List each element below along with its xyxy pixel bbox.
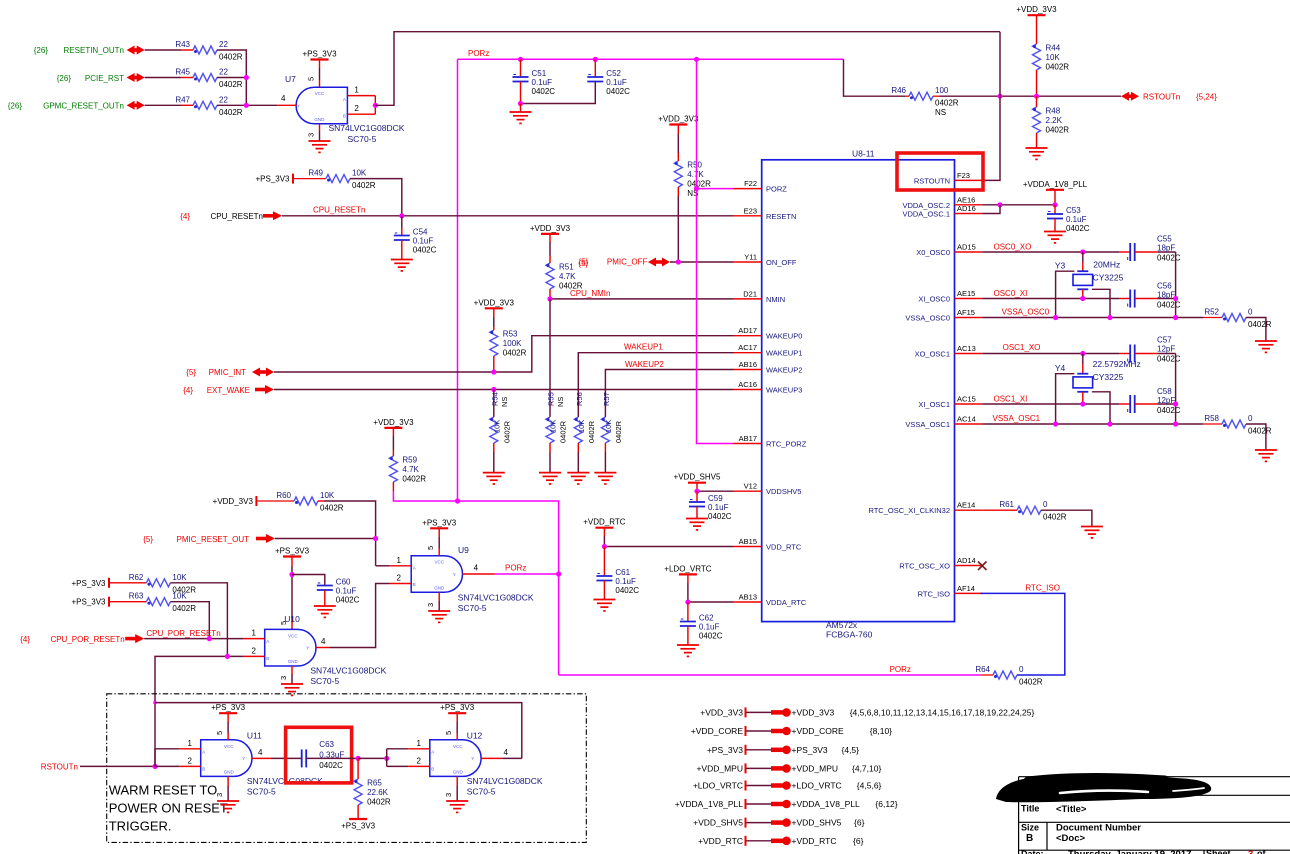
- wire U12 pin2 wire: [387, 765, 409, 767]
- wire EXT_WAKE to WAKEUP3: [274, 389, 734, 391]
- svg-text:EXT_WAKE: EXT_WAKE: [207, 386, 250, 395]
- svg-text:1: 1: [188, 739, 193, 748]
- wire RESETIN_OUTn to R43: [145, 49, 181, 51]
- resistor R46: [891, 86, 958, 117]
- svg-text:Sheet: Sheet: [1206, 849, 1231, 854]
- svg-text:Y: Y: [453, 572, 456, 577]
- svg-text:U12: U12: [467, 731, 483, 741]
- junction feedback: [153, 701, 157, 705]
- svg-text:2.2K: 2.2K: [1046, 116, 1063, 125]
- svg-text:VCC: VCC: [224, 744, 234, 749]
- svg-text:VCC: VCC: [288, 633, 298, 638]
- wire U12 input tie: [386, 749, 388, 767]
- wire PORz to F22: [697, 188, 734, 190]
- svg-text:0402R: 0402R: [219, 80, 243, 89]
- svg-text:GND: GND: [453, 769, 464, 774]
- ground at R54: [483, 473, 505, 484]
- junction PORz jog: [455, 498, 460, 503]
- svg-text:0: 0: [1043, 500, 1048, 509]
- svg-text:VCC: VCC: [453, 744, 463, 749]
- svg-text:Thursday, January 19, 2017: Thursday, January 19, 2017: [1068, 849, 1191, 854]
- svg-text:{26}: {26}: [34, 46, 49, 55]
- svg-text:{5}: {5}: [186, 368, 196, 377]
- wire R47 to U7 output: [217, 104, 278, 106]
- junction PORz F22: [694, 186, 699, 191]
- wire R53 bottom to PMIC_INT row: [493, 356, 495, 372]
- capacitor C56: [1128, 290, 1135, 308]
- svg-text:CPU_POR_RESETn: CPU_POR_RESETn: [50, 635, 124, 644]
- pin 1 U11: [179, 739, 201, 749]
- wire R48 bottom stub: [1036, 133, 1038, 148]
- svg-text:+PS_3V3: +PS_3V3: [211, 703, 246, 712]
- capacitor C58 on XI1 row: [1119, 387, 1181, 415]
- svg-text:18pF: 18pF: [1157, 244, 1175, 253]
- svg-text:C60: C60: [336, 578, 351, 587]
- svg-text:5: 5: [215, 731, 224, 735]
- svg-text:B: B: [1026, 833, 1033, 844]
- resistor R62: [109, 573, 196, 595]
- svg-text:{4,5,6,8,10,11,12,13,14,15,16,: {4,5,6,8,10,11,12,13,14,15,16,17,18,19,2…: [850, 707, 1035, 717]
- svg-text:+PS_3V3: +PS_3V3: [341, 822, 376, 831]
- wire GPMC_RESET_OUTn to R47: [145, 104, 181, 106]
- gate U9 SN74LVC1G08DCK: [411, 545, 534, 613]
- wire PORz to RTC_PORZ: [697, 59, 734, 443]
- wire R44 top stub: [1036, 15, 1038, 44]
- svg-text:C61: C61: [615, 568, 630, 577]
- svg-text:PMIC_INT: PMIC_INT: [209, 368, 246, 377]
- svg-text:0.1uF: 0.1uF: [413, 237, 434, 246]
- wire R59 top: [392, 428, 394, 456]
- svg-text:Y: Y: [242, 756, 245, 761]
- wire VSSA_OSC1 row: [982, 423, 1203, 425]
- node CPU_RESETn off-page: [180, 212, 263, 221]
- svg-text:NMIN: NMIN: [766, 295, 785, 304]
- port arrow PMIC_INT: [252, 368, 274, 377]
- ground at U11: [217, 801, 239, 812]
- wire C57 C58 right vertical: [1175, 354, 1177, 425]
- port arrow GPMC_RESET_OUTn: [127, 101, 145, 110]
- pin AD15 X0_OSC0: [916, 243, 982, 258]
- power +PS_3V3 at R62: [108, 578, 110, 588]
- svg-text:PCIE_RST: PCIE_RST: [85, 74, 124, 83]
- wire C62 column: [687, 602, 689, 622]
- pin 3 U7 GND: [307, 124, 320, 141]
- svg-text:10K: 10K: [172, 592, 187, 601]
- pin AB16 WAKEUP2: [734, 360, 803, 375]
- svg-text:SN74LVC1G08DCK: SN74LVC1G08DCK: [310, 666, 386, 676]
- capacitor C62: [680, 614, 723, 641]
- wire C53 top stub: [1054, 205, 1056, 214]
- capacitor C52: [587, 69, 630, 96]
- pin 4 U10 output: [316, 637, 330, 648]
- svg-text:+VDD_3V3: +VDD_3V3: [474, 298, 515, 307]
- svg-text:100: 100: [935, 86, 949, 95]
- junction NMIN R51 R55: [547, 296, 552, 301]
- pin V12 VDDSHV5: [734, 482, 802, 497]
- wire C61 ground stub: [603, 581, 605, 600]
- svg-text:0402R: 0402R: [352, 181, 376, 190]
- wire U10 B net to U11: [155, 656, 243, 702]
- svg-text:PORz: PORz: [505, 564, 526, 573]
- svg-text:AC16: AC16: [738, 380, 757, 389]
- wire C62 ground stub: [687, 626, 689, 645]
- pin AC15 XI_OSC1: [918, 395, 982, 410]
- svg-text:+PS_3V3: +PS_3V3: [71, 579, 106, 588]
- svg-text:WAKEUP1: WAKEUP1: [766, 349, 802, 358]
- svg-text:VDDSHV5: VDDSHV5: [766, 487, 801, 496]
- svg-text:1: 1: [397, 556, 402, 565]
- resistor R50: [674, 161, 711, 199]
- junction U11 inputs: [152, 764, 157, 769]
- wire R45 to junction: [217, 77, 246, 79]
- svg-text:R46: R46: [891, 86, 906, 95]
- svg-text:22: 22: [219, 40, 228, 49]
- crystal Y4 22.5792MHz CY3225: [1055, 359, 1141, 392]
- svg-text:Y: Y: [306, 646, 309, 651]
- pin 2 U9: [389, 574, 411, 584]
- pin AC14 VSSA_OSC1: [905, 415, 982, 430]
- svg-text:R51: R51: [559, 263, 574, 272]
- svg-text:5: 5: [307, 77, 316, 81]
- svg-text:U10: U10: [284, 614, 300, 624]
- svg-text:R45: R45: [175, 68, 190, 77]
- power flag +VDD_SHV5: [693, 818, 864, 828]
- svg-text:ON_OFF: ON_OFF: [766, 258, 797, 267]
- wire VSSA_OSC0 row: [982, 317, 1203, 319]
- marker scribble: [996, 774, 1211, 802]
- wire PORz top rail: [458, 58, 844, 60]
- svg-text:AB13: AB13: [739, 593, 757, 602]
- svg-text:AD16: AD16: [957, 204, 976, 213]
- wire junction to U12 inputs: [358, 757, 387, 759]
- ground at R58: [1255, 450, 1277, 461]
- title block texts: [1021, 804, 1266, 854]
- svg-text:0.1uF: 0.1uF: [615, 577, 636, 586]
- svg-text:+VDD_RTC: +VDD_RTC: [792, 836, 837, 846]
- svg-text:0402R: 0402R: [614, 420, 623, 443]
- wire U9 output to PORz vertical: [495, 573, 559, 575]
- svg-text:0402C: 0402C: [1157, 254, 1181, 263]
- svg-text:Title: Title: [1021, 804, 1039, 814]
- svg-text:R47: R47: [175, 95, 190, 104]
- capacitor C56 on XI row: [1119, 282, 1181, 310]
- power flag +VDD_MPU: [696, 763, 881, 773]
- svg-text:+VDD_3V3: +VDD_3V3: [373, 418, 414, 427]
- svg-text:B: B: [431, 766, 434, 771]
- svg-text:A: A: [266, 639, 269, 644]
- svg-text:R55: R55: [547, 392, 556, 406]
- node RSTOUTn label: [1143, 93, 1217, 102]
- svg-text:U7: U7: [285, 74, 296, 84]
- pin AE16 VDDA_OSC.2: [902, 195, 982, 210]
- wire C54 top stub: [401, 216, 403, 228]
- power +PS_3V3 at U7: [311, 58, 329, 60]
- node PMIC_RESET_OUT off-page: [143, 535, 249, 544]
- ground at R55: [539, 473, 561, 484]
- svg-text:0402C: 0402C: [413, 246, 437, 255]
- svg-text:10K: 10K: [352, 169, 367, 178]
- svg-text:2: 2: [354, 104, 359, 113]
- svg-text:{6,12}: {6,12}: [875, 799, 897, 809]
- svg-text:AD14: AD14: [957, 556, 976, 565]
- junction VSSA_OSC0 caps: [1173, 315, 1178, 320]
- wire WAKEUP2 row: [605, 370, 733, 418]
- wire into U9 pin 1: [376, 565, 389, 567]
- svg-text:Y4: Y4: [1055, 363, 1066, 373]
- pin AE14 RTC_OSC_XI_CLKIN32: [868, 501, 982, 516]
- wire X0_OSC0 row: [982, 251, 1119, 253]
- svg-text:R63: R63: [129, 592, 144, 601]
- svg-text:1: 1: [354, 86, 359, 95]
- svg-text:10K: 10K: [1046, 53, 1061, 62]
- svg-text:0.1uF: 0.1uF: [699, 623, 720, 632]
- svg-text:0: 0: [1019, 665, 1024, 674]
- svg-text:RSTOUTN: RSTOUTN: [914, 176, 950, 185]
- svg-text:AC13: AC13: [957, 344, 976, 353]
- power flag +PS_3V3: [707, 745, 859, 755]
- power +PS_3V3 at U9: [430, 527, 448, 529]
- svg-text:0402C: 0402C: [615, 586, 639, 595]
- power +PS_3V3 at U10: [283, 555, 301, 557]
- port arrow RESETIN_OUTn: [127, 46, 145, 55]
- svg-text:WARM RESET TO: WARM RESET TO: [109, 783, 218, 798]
- wire PORz left vertical: [457, 59, 459, 501]
- svg-text:0402C: 0402C: [1157, 301, 1181, 310]
- svg-text:+VDD_CORE: +VDD_CORE: [691, 726, 744, 736]
- resistor R64: [975, 665, 1042, 687]
- crystal Y3 20MHz CY3225: [1055, 260, 1124, 290]
- svg-text:GND: GND: [288, 659, 299, 664]
- wire Y4 case left: [1056, 374, 1075, 424]
- svg-text:AC15: AC15: [957, 395, 976, 404]
- power +VDD_3V3 at R59: [384, 427, 402, 429]
- junction Y3 top: [1080, 249, 1085, 254]
- pin 3 U11 GND: [215, 776, 228, 801]
- svg-text:10K: 10K: [320, 491, 335, 500]
- power +VDD_RTC: [595, 527, 613, 529]
- svg-text:B: B: [202, 766, 205, 771]
- ground at U12: [446, 801, 468, 812]
- port arrow PMIC_OFF: [648, 258, 670, 267]
- svg-text:+VDD_SHV5: +VDD_SHV5: [674, 473, 721, 482]
- svg-text:0402C: 0402C: [699, 632, 723, 641]
- svg-text:CY3225: CY3225: [1093, 272, 1124, 282]
- wire C52 top stub: [594, 59, 596, 77]
- svg-text:X0_OSC0: X0_OSC0: [916, 248, 950, 257]
- wire U7 input tie: [374, 96, 376, 115]
- svg-text:GPMC_RESET_OUTn: GPMC_RESET_OUTn: [43, 102, 124, 111]
- junction PMIC_RESET_OUT R60: [373, 536, 378, 541]
- port arrow PCIE_RST: [127, 73, 145, 82]
- svg-text:10K: 10K: [577, 420, 586, 433]
- svg-text:R65: R65: [367, 779, 382, 788]
- svg-text:0.1uF: 0.1uF: [532, 78, 553, 87]
- resistor R56: [574, 392, 596, 443]
- junction Y4 bottom: [1080, 401, 1085, 406]
- svg-text:+PS_3V3: +PS_3V3: [255, 175, 290, 184]
- ground at C62: [677, 645, 699, 656]
- power +VDD_3V3 at R50: [669, 123, 687, 125]
- svg-text:0402C: 0402C: [1157, 355, 1181, 364]
- svg-text:3: 3: [426, 603, 435, 607]
- svg-text:{4}: {4}: [20, 635, 30, 644]
- pin AF15 VSSA_OSC0: [905, 308, 982, 323]
- junction PORz at C52: [593, 57, 598, 62]
- resistor R57: [601, 392, 623, 443]
- wire F23 riser: [982, 32, 1000, 181]
- svg-text:VSSA_OSC0: VSSA_OSC0: [1002, 308, 1050, 317]
- port arrow CPU_RESETn: [263, 211, 282, 220]
- wire XI_OSC1 row: [982, 403, 1119, 405]
- op-amp U7 AND gate SN74LVC1G08DCK: [285, 74, 405, 144]
- svg-text:+VDD_MPU: +VDD_MPU: [792, 763, 839, 773]
- pin 3 U10 GND: [279, 666, 292, 684]
- svg-text:2: 2: [252, 646, 257, 655]
- dashed box warm reset: [107, 694, 587, 843]
- wire VDD_RTC: [604, 528, 733, 547]
- power flag +VDDA_1V8_PLL: [675, 799, 898, 809]
- wire R50 top: [677, 125, 679, 162]
- pin 2 U10: [243, 646, 265, 656]
- ground at C61: [593, 600, 615, 611]
- svg-text:RSTOUTn: RSTOUTn: [1143, 93, 1180, 102]
- svg-text:R60: R60: [276, 491, 291, 500]
- svg-text:R50: R50: [687, 161, 702, 170]
- svg-text:R49: R49: [308, 169, 323, 178]
- svg-text:{26}: {26}: [8, 102, 23, 111]
- svg-text:2: 2: [397, 574, 402, 583]
- svg-text:AB17: AB17: [739, 434, 757, 443]
- svg-text:+VDD_3V3: +VDD_3V3: [213, 497, 254, 506]
- wire C63 to R65 junction: [306, 757, 358, 759]
- svg-text:SC70-5: SC70-5: [467, 787, 496, 797]
- svg-text:C58: C58: [1157, 387, 1172, 396]
- pin 2 U7 input B: [347, 104, 375, 114]
- junction C53: [1052, 202, 1057, 207]
- svg-text:{5}: {5}: [578, 259, 588, 268]
- wire PMIC_INT to WAKEUP0: [274, 336, 734, 372]
- gate U10 SN74LVC1G08DCK: [265, 614, 387, 686]
- svg-text:100K: 100K: [503, 339, 522, 348]
- svg-text:+VDD_3V3: +VDD_3V3: [700, 707, 743, 717]
- svg-text:POWER ON RESET: POWER ON RESET: [109, 801, 228, 816]
- svg-text:OSC0_XO: OSC0_XO: [994, 243, 1032, 252]
- svg-text:AD15: AD15: [957, 243, 976, 252]
- wire R54 riser: [493, 390, 495, 418]
- wire R44 bottom to RSTOUTn row: [1036, 70, 1038, 96]
- svg-text:20MHz: 20MHz: [1093, 260, 1120, 270]
- svg-text:A: A: [343, 97, 346, 102]
- svg-text:+VDDA_1V8_PLL: +VDDA_1V8_PLL: [675, 799, 744, 809]
- svg-text:SC70-5: SC70-5: [458, 603, 487, 613]
- svg-text:Y: Y: [471, 756, 474, 761]
- junction: [244, 75, 249, 80]
- power +VDD_3V3 at R44: [1028, 14, 1046, 16]
- capacitor C51: [513, 69, 556, 96]
- pin AF14 RTC_ISO: [918, 584, 983, 599]
- wire RSTOUTn feedback net: [154, 703, 156, 767]
- wire XO1 to crystal: [1082, 354, 1084, 374]
- junction VDD_RTC C61: [602, 544, 607, 549]
- svg-text:CPU_RESETn: CPU_RESETn: [313, 206, 365, 215]
- gate U12: [430, 740, 481, 777]
- wire RTC_ISO blue loop: [981, 593, 1065, 675]
- resistor R51: [546, 263, 583, 291]
- pin 4 U11 output: [252, 748, 271, 759]
- wire R50 bottom to ON_OFF: [677, 187, 679, 262]
- svg-text:0.1uF: 0.1uF: [336, 587, 357, 596]
- svg-text:1: 1: [252, 629, 257, 638]
- svg-text:AF15: AF15: [957, 308, 975, 317]
- svg-text:+VDD_3V3: +VDD_3V3: [792, 707, 835, 717]
- capacitor C55: [1128, 243, 1135, 261]
- svg-text:10K: 10K: [549, 420, 558, 433]
- svg-text:3: 3: [279, 676, 288, 680]
- svg-text:12pF: 12pF: [1157, 396, 1175, 405]
- wire U12 out riser: [502, 757, 522, 759]
- power +VDD_3V3 at R53: [485, 307, 503, 309]
- svg-text:{4,7,10}: {4,7,10}: [852, 763, 881, 773]
- resistor R63: [109, 592, 196, 614]
- junction U12 inputs: [384, 756, 389, 761]
- wire AD16 riser: [982, 205, 1000, 214]
- svg-text:3: 3: [444, 793, 453, 797]
- svg-text:0402R: 0402R: [559, 420, 568, 443]
- pin AB15 VDD_RTC: [734, 537, 802, 552]
- wire to C60: [292, 575, 325, 586]
- svg-text:SN74LVC1G08DCK: SN74LVC1G08DCK: [467, 776, 543, 786]
- svg-text:AE14: AE14: [957, 501, 975, 510]
- svg-text:{6}: {6}: [853, 836, 864, 846]
- junction C56 vertical: [1173, 296, 1178, 301]
- gate U10: [265, 629, 316, 666]
- svg-text:+PS_3V3: +PS_3V3: [71, 598, 106, 607]
- wire PMIC_OFF to ON_OFF pin: [670, 261, 734, 263]
- svg-text:C55: C55: [1157, 235, 1172, 244]
- junction VSSA_OSC1 case right: [1107, 421, 1112, 426]
- ground at C54: [391, 260, 413, 271]
- svg-text:AC14: AC14: [957, 415, 976, 424]
- svg-text:{6}: {6}: [854, 818, 865, 828]
- svg-text:VDDA_OSC.1: VDDA_OSC.1: [902, 210, 950, 219]
- wire R52 to ground: [1246, 318, 1266, 342]
- wire Y4 case right: [1092, 392, 1110, 424]
- svg-text:{4}: {4}: [183, 386, 193, 395]
- junction VDDA_RTC C62: [685, 599, 690, 604]
- svg-text:R53: R53: [503, 330, 518, 339]
- power +PS_3V3 below R65: [349, 818, 367, 820]
- wire R58 to ground: [1246, 424, 1266, 450]
- svg-text:0402R: 0402R: [687, 180, 711, 189]
- svg-text:RTC_PORZ: RTC_PORZ: [766, 440, 807, 449]
- svg-text:PORz: PORz: [468, 49, 489, 58]
- wire PORz bottom rail: [559, 674, 981, 676]
- pin AD14 RTC_OSC_XO: [899, 556, 982, 571]
- svg-text:R43: R43: [175, 40, 190, 49]
- svg-text:SC70-5: SC70-5: [247, 787, 276, 797]
- capacitor C57 on XO1 row: [1119, 336, 1181, 364]
- svg-text:0.1uF: 0.1uF: [606, 78, 627, 87]
- wire U11 out to C63: [271, 757, 302, 759]
- node RESETIN_OUTn off-page: [34, 46, 124, 55]
- wire Y3 case right: [1092, 289, 1110, 317]
- junction ON_OFF R50: [676, 259, 681, 264]
- wire R55 to ground: [549, 443, 551, 473]
- svg-text:U11: U11: [247, 731, 262, 741]
- pin 3 U12 GND: [444, 776, 457, 801]
- resistor R52: [1203, 308, 1272, 330]
- ground at C53: [1044, 232, 1066, 243]
